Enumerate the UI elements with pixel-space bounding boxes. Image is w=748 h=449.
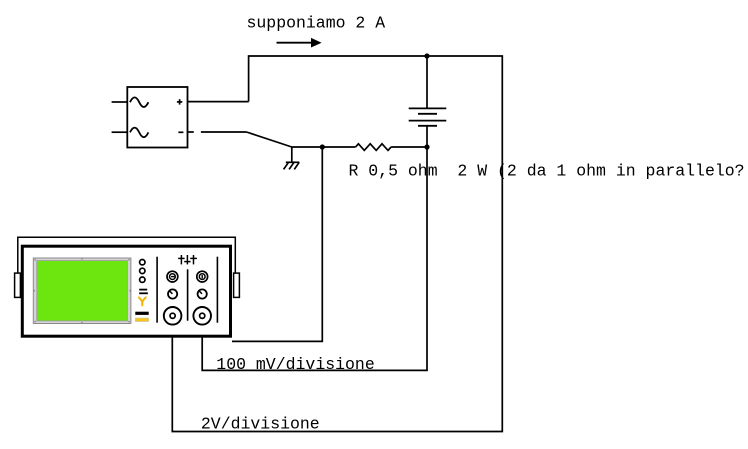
svg-text:2V/divisione: 2V/divisione: [201, 414, 320, 433]
svg-text:supponiamo 2 A: supponiamo 2 A: [247, 13, 386, 32]
svg-text:R 0,5 ohm 2 W (2 da 1 ohm in: R 0,5 ohm 2 W (2 da 1 ohm in parallelo?: [349, 161, 745, 180]
